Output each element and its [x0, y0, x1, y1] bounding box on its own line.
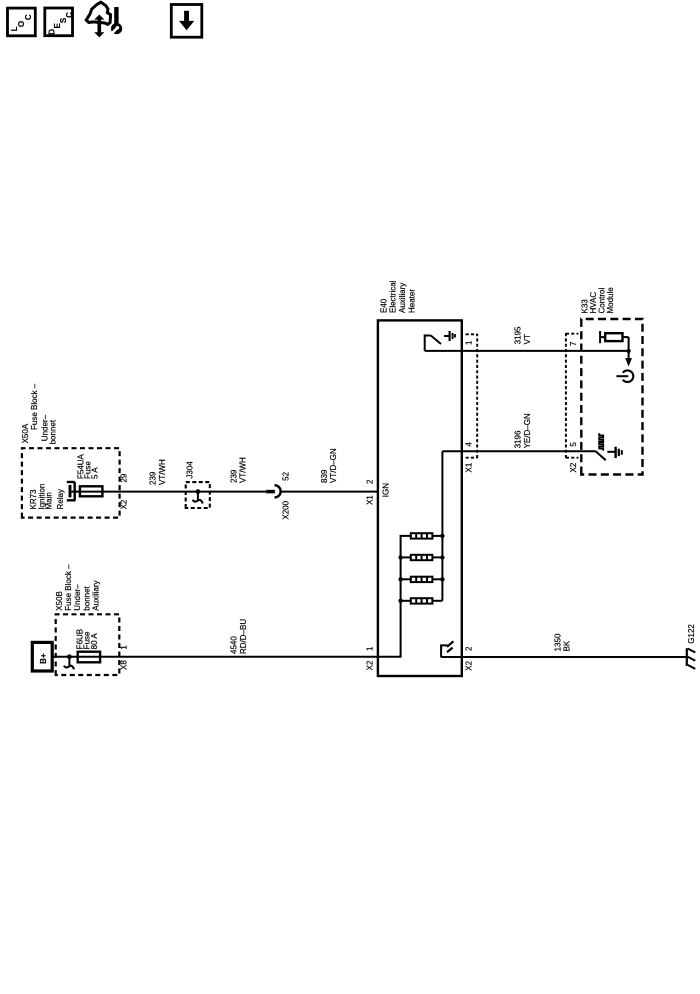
icon vehicle with arrows and wrench: [86, 2, 122, 37]
wire 3195 VT from switch to K33: [425, 350, 629, 352]
heater E40 label: [379, 280, 416, 313]
svg-text:4: 4: [464, 442, 473, 447]
svg-text:1: 1: [120, 645, 129, 650]
wire battery bus inside E40: [378, 536, 411, 657]
svg-text:2: 2: [365, 479, 374, 484]
case ground symbol inside E40 (pin X2-2 side): [441, 641, 453, 657]
connector X200: [266, 485, 280, 497]
svg-text:1: 1: [365, 646, 374, 651]
wire element feeds from bus: [398, 555, 410, 603]
connector X1 bracket (E40 bottom): [466, 334, 478, 458]
heater E40 box: [378, 320, 462, 676]
wire battery feed from B+ through fuse F6UB: [52, 656, 378, 658]
svg-text:239: 239: [148, 471, 157, 485]
svg-text:O: O: [17, 21, 26, 27]
svg-text:Fuse Block –: Fuse Block –: [30, 383, 39, 430]
svg-text:X2: X2: [365, 660, 374, 670]
svg-text:BK: BK: [563, 640, 572, 651]
svg-text:bonnet: bonnet: [82, 585, 91, 610]
fuse block X50A label: [21, 383, 57, 444]
arrow to module power: [625, 351, 632, 367]
svg-text:Module: Module: [606, 287, 615, 314]
wire 3196 YE/D-GN from lower bus to K33: [442, 450, 595, 452]
icon box DESC: [45, 8, 74, 36]
svg-text:RD/D–BU: RD/D–BU: [239, 619, 248, 654]
icon box LOC: [8, 8, 36, 36]
splice J304 dashed box: [186, 482, 210, 508]
svg-text:Electrical: Electrical: [389, 280, 398, 313]
svg-text:Heater: Heater: [407, 289, 416, 313]
relay KR73 contact: [67, 482, 76, 500]
svg-text:X2: X2: [465, 660, 474, 670]
svg-text:E40: E40: [379, 298, 388, 313]
heater element 4: [411, 598, 433, 603]
heater element 2: [411, 555, 433, 560]
svg-text:X2: X2: [120, 499, 129, 509]
fuse block X50A dashed box: [22, 448, 120, 517]
svg-text:Main: Main: [45, 492, 54, 509]
svg-text:G122: G122: [687, 624, 696, 644]
svg-text:D: D: [47, 29, 56, 35]
svg-text:X1: X1: [464, 462, 473, 472]
fuse F6UB: [78, 652, 100, 663]
driver switch inside K33: [596, 433, 606, 460]
svg-text:X50B: X50B: [55, 591, 64, 611]
svg-text:239: 239: [229, 469, 238, 483]
module K33 label: [580, 287, 615, 314]
icon box down-arrow: [171, 5, 202, 38]
wire 839 VT/D-GN label: [320, 448, 338, 483]
svg-text:IGN: IGN: [382, 483, 391, 497]
wire 3195 VT label: [514, 326, 532, 344]
splice J304 symbol: [193, 489, 203, 503]
svg-text:2: 2: [465, 646, 474, 651]
internal fuse element inside K33: [600, 331, 629, 351]
svg-text:YE/D–GN: YE/D–GN: [523, 413, 532, 448]
svg-text:839: 839: [320, 469, 329, 483]
svg-text:Under–: Under–: [73, 584, 82, 611]
svg-text:VT/WH: VT/WH: [158, 459, 167, 485]
connector X2 bracket (K33 top): [566, 333, 579, 458]
svg-text:3195: 3195: [514, 326, 523, 344]
svg-text:80 A: 80 A: [90, 633, 99, 650]
svg-text:C: C: [65, 12, 74, 18]
wire 3196 YE/D-GN label: [514, 413, 532, 448]
svg-text:Relay: Relay: [56, 489, 65, 509]
wire 1350 BK from case ground to G122: [441, 656, 687, 658]
wire 839 VT/D-GN: [281, 491, 378, 493]
ground symbol inside K33: [607, 447, 621, 458]
svg-text:52: 52: [282, 471, 291, 480]
svg-text:J304: J304: [186, 461, 195, 479]
wire element returns to lower bus: [432, 534, 444, 601]
svg-text:X8: X8: [120, 660, 129, 670]
svg-text:Fuse Block –: Fuse Block –: [64, 564, 73, 611]
svg-text:X200: X200: [282, 500, 291, 519]
svg-text:X1: X1: [365, 495, 374, 505]
splice tap symbol in X50B: [64, 654, 74, 669]
power symbol inside K33: [616, 370, 633, 382]
svg-text:1: 1: [464, 340, 473, 345]
heater element 1: [411, 533, 433, 538]
svg-text:29: 29: [120, 473, 129, 482]
fuse block X50B label: [55, 564, 101, 611]
svg-text:Auxiliary: Auxiliary: [398, 283, 407, 313]
wire 4540 RD/D-BU label: [229, 619, 247, 654]
fuse F6UB label: [76, 629, 99, 649]
fuse block X50B dashed box: [56, 614, 120, 675]
wire lower bus inside E40 to pin 4: [441, 451, 443, 601]
module K33 dashed box: [581, 319, 642, 475]
wire ignition feed from relay through fuse to X200: [71, 491, 266, 493]
svg-text:B+: B+: [39, 653, 48, 664]
heater element 3: [411, 577, 433, 582]
fuse F54UA: [80, 486, 103, 496]
ground symbol inside E40 (switch side): [444, 331, 455, 341]
relay KR73 label: [29, 484, 65, 510]
node junction on 3195 inside K33: [626, 349, 630, 353]
ground G122: [687, 648, 696, 669]
svg-text:1350: 1350: [554, 633, 563, 651]
svg-text:VT/D–GN: VT/D–GN: [329, 448, 338, 483]
svg-text:C: C: [24, 14, 33, 20]
svg-text:Auxiliary: Auxiliary: [92, 580, 101, 610]
svg-text:3196: 3196: [514, 430, 523, 448]
svg-text:7: 7: [569, 341, 578, 346]
svg-text:4540: 4540: [229, 636, 238, 654]
svg-text:X50A: X50A: [21, 423, 30, 443]
wire 239 VT/WH label (upper): [148, 459, 166, 485]
wire 1350 BK label: [554, 633, 572, 651]
fuse F54UA label: [77, 453, 100, 479]
svg-text:bonnet: bonnet: [49, 419, 58, 444]
svg-text:5 A: 5 A: [90, 467, 99, 479]
svg-text:5: 5: [569, 442, 578, 447]
battery feed B+ terminal: [32, 642, 52, 671]
svg-text:VT: VT: [523, 334, 532, 344]
wire 239 VT/WH label (lower): [229, 457, 247, 483]
svg-text:X2: X2: [569, 462, 578, 472]
svg-text:VT/WH: VT/WH: [239, 457, 248, 483]
thermal switch inside E40: [425, 336, 441, 351]
